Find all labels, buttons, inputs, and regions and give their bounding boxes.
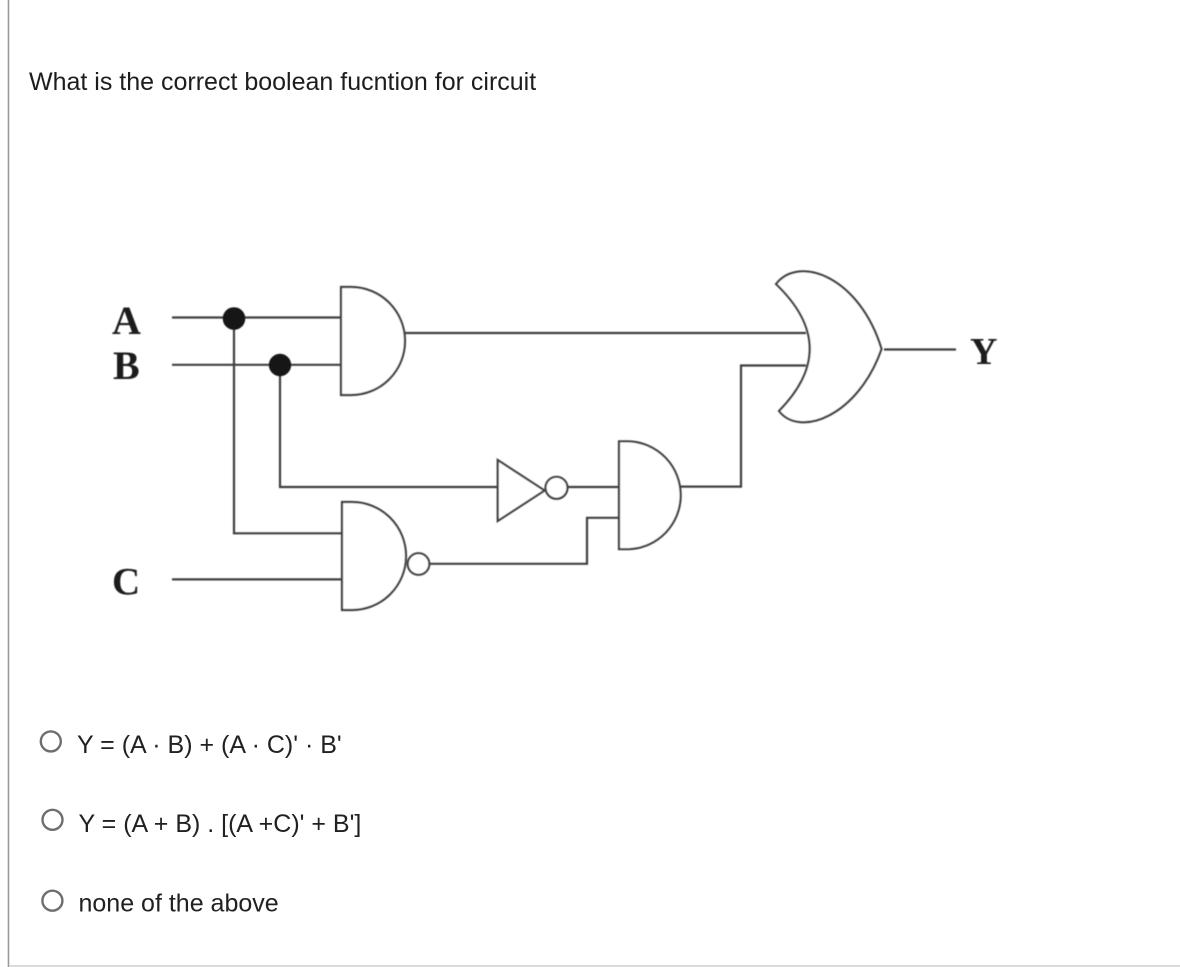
svg-text:B: B <box>113 343 140 388</box>
svg-text:Y = (A · B) + (A · C)' · B': Y = (A · B) + (A · C)' · B' <box>77 731 342 759</box>
svg-text:C: C <box>112 561 140 604</box>
svg-text:Y = (A + B) . [(A +C)' + B']: Y = (A + B) . [(A +C)' + B'] <box>79 810 362 838</box>
svg-text:A: A <box>112 298 141 343</box>
svg-text:What is the correct boolean fu: What is the correct boolean fucntion for… <box>29 68 536 96</box>
svg-text:Y: Y <box>970 331 997 373</box>
svg-text:none of the above: none of the above <box>79 890 279 918</box>
